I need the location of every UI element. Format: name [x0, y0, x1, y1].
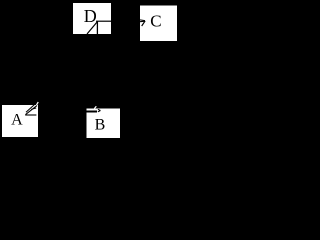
box A [2, 105, 38, 137]
svg-text:C: C [150, 11, 161, 30]
arrow into A: upper stroke [26, 104, 35, 112]
arrowhead into C: upper barb [140, 19, 145, 22]
svg-text:A: A [11, 112, 23, 129]
arrow into A: shaft stroke [26, 106, 38, 115]
wire diagonal over D [87, 22, 98, 35]
box D [73, 3, 111, 34]
box B [87, 108, 120, 138]
arrow into B: lower barb [98, 111, 101, 112]
svg-text:B: B [95, 117, 106, 134]
box C [140, 5, 177, 41]
arrow into A: lower barb [25, 114, 36, 116]
arrowhead into C: lower barb [142, 21, 145, 26]
arrow into B: notch (shaft gap) [87, 111, 98, 113]
svg-text:D: D [84, 6, 97, 26]
wire horizontal over D (shaft toward C) [96, 20, 111, 22]
arrow into B: upper barb [98, 109, 101, 110]
wire vertical over D [96, 21, 98, 34]
arrowhead into C: shaft stub [140, 20, 145, 23]
arrow into B: white stub above tab [94, 106, 96, 108]
arrow into A: white stub outside corner [36, 102, 38, 105]
arrow into A: short branch stroke [31, 108, 36, 109]
